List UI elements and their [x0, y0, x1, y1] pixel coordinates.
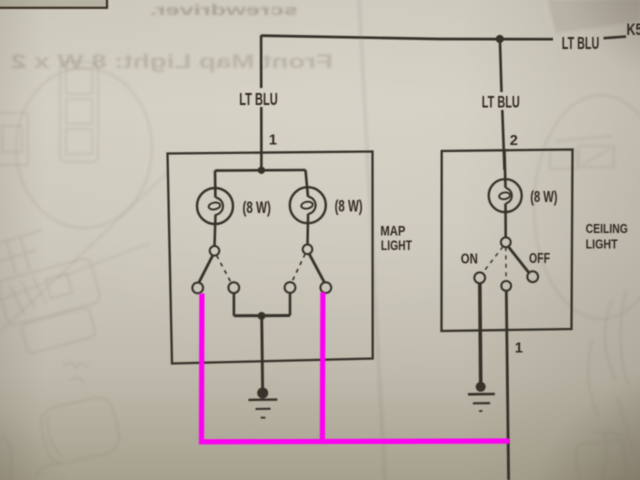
wire: drop to right bulb	[306, 170, 309, 197]
wire: right bulb to switch S2	[306, 214, 309, 245]
switch S1 thrown contact	[192, 283, 203, 294]
svg-text:LIGHT: LIGHT	[381, 237, 412, 253]
node: map pin1 junction dot	[258, 167, 265, 174]
bulb L2 (8W map right)	[290, 187, 326, 223]
wire: left bulb to switch S1	[215, 214, 216, 246]
wire: map ground run	[260, 316, 264, 388]
switch S1 inner contact	[228, 282, 239, 293]
wire: main LT BLU horizontal feed	[261, 36, 553, 40]
svg-text:1: 1	[269, 132, 277, 148]
wire: ceiling pin1 down to edge	[506, 291, 508, 480]
wire: map light feed lower to pin 1	[260, 107, 263, 170]
wire: ceiling light feed upper	[500, 39, 502, 92]
wire: right inner contact drop	[289, 293, 292, 316]
wire: pin2 to ceiling bulb	[505, 151, 506, 188]
ground G2 (ceiling light)	[476, 382, 486, 392]
svg-text:MAP: MAP	[380, 222, 405, 238]
wire: ON contact ground run	[478, 283, 483, 382]
highlight wire: right map switch drop	[320, 292, 326, 441]
highlight wire: left map switch to bottom bus	[202, 294, 510, 442]
switch S3 ON contact	[474, 272, 485, 283]
wire: ceiling light feed lower to pin 2	[502, 110, 504, 170]
svg-text:Front Map Light: 8 W x 2: Front Map Light: 8 W x 2	[11, 51, 333, 73]
switch S2 thrown contact	[320, 282, 331, 293]
switch S2 blade	[309, 254, 325, 283]
switch S3 dashed to ON	[482, 247, 503, 274]
svg-text:LT BLU: LT BLU	[562, 33, 600, 53]
paper crease (decorative)	[359, 0, 385, 480]
wire: drop to left bulb	[214, 171, 217, 198]
svg-text:2: 2	[510, 133, 518, 149]
svg-text:1: 1	[515, 341, 523, 357]
switch S3 middle contact	[501, 281, 511, 291]
switch S2 dashed alternate	[291, 254, 305, 284]
svg-text:(8 W): (8 W)	[530, 189, 557, 206]
reverse-page header box top-left	[0, 0, 107, 8]
svg-text:LT BLU: LT BLU	[482, 93, 520, 112]
svg-text:OFF: OFF	[529, 251, 550, 267]
switch S3 OFF contact	[527, 271, 538, 282]
switch S3 blade to OFF	[508, 246, 529, 273]
svg-text:LIGHT: LIGHT	[586, 237, 618, 252]
switch S1 dashed alternate	[217, 255, 232, 283]
switch S1 pivot contact	[210, 246, 220, 256]
svg-text:K5: K5	[627, 21, 640, 39]
component box CEILING LIGHT	[442, 150, 573, 332]
bulb L1 (8W map left)	[197, 188, 233, 224]
svg-text:ON: ON	[461, 252, 478, 268]
svg-text:CEILING: CEILING	[586, 221, 628, 236]
switch S1 blade	[199, 255, 213, 283]
switch S3 dashed to middle	[505, 247, 507, 281]
wire: map light feed upper	[260, 35, 263, 88]
svg-text:(8 W): (8 W)	[335, 198, 363, 216]
wire: stub to K5 connector	[604, 37, 627, 39]
svg-text:(8 W): (8 W)	[243, 199, 271, 217]
wire: ground bus	[234, 314, 290, 317]
node: ground bus junction	[258, 312, 266, 320]
bulb L3 (8W ceiling)	[489, 179, 522, 212]
switch S3 pivot contact	[501, 237, 511, 247]
ground G1 (map light)	[257, 388, 268, 399]
svg-text:screwdriver.: screwdriver.	[150, 2, 298, 19]
switch S2 inner contact	[285, 282, 296, 293]
wire: ceiling bulb to switch S3	[504, 204, 507, 239]
wire: map internal bus	[215, 169, 306, 172]
highlighter trace layer	[202, 292, 510, 442]
switch S2 pivot contact	[303, 245, 313, 255]
svg-text:LT BLU: LT BLU	[239, 89, 278, 109]
junction node on feed wire	[496, 35, 504, 43]
component box MAP LIGHT	[168, 152, 373, 364]
wire: left inner contact drop	[233, 293, 236, 316]
